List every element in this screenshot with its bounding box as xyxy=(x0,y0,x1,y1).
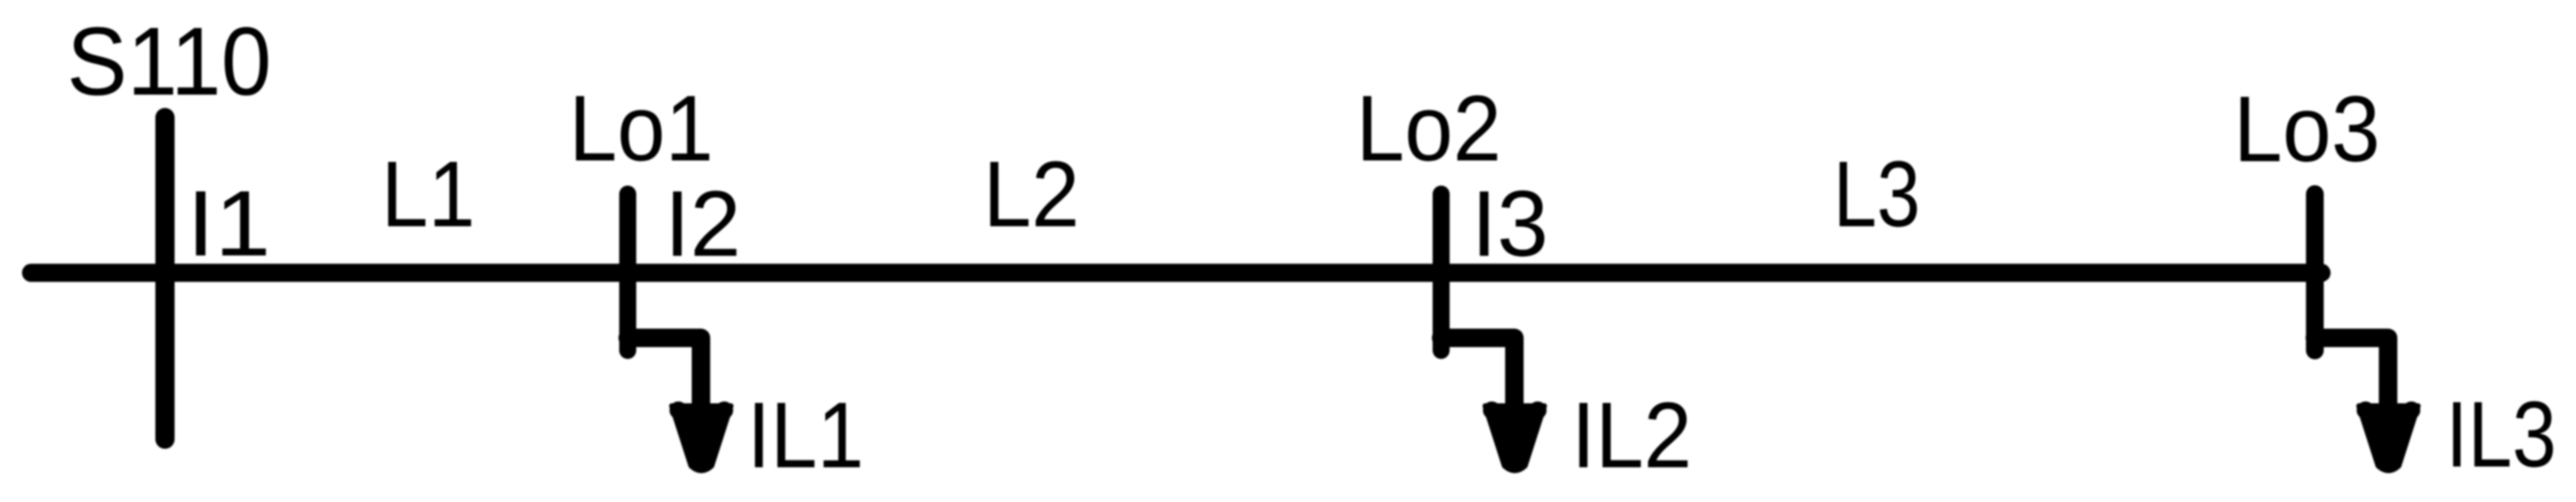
svg-text:Lo1: Lo1 xyxy=(569,76,713,180)
node Lo2 tick xyxy=(1433,194,1450,351)
svg-text:IL1: IL1 xyxy=(747,383,864,487)
load arrow IL1 xyxy=(670,401,733,471)
svg-text:L3: L3 xyxy=(1833,142,1921,246)
wire: main feeder bus line xyxy=(31,264,2322,282)
svg-text:I3: I3 xyxy=(1471,172,1548,276)
load arrow IL3 xyxy=(2357,401,2421,471)
svg-text:IL3: IL3 xyxy=(2446,382,2557,486)
svg-text:L1: L1 xyxy=(381,142,475,246)
node Lo3 tick xyxy=(2306,194,2324,351)
node Lo1 tick xyxy=(619,194,636,351)
load arrow IL2 xyxy=(1483,401,1547,471)
wire: load branch at Lo2 xyxy=(1441,338,1514,414)
svg-text:Lo3: Lo3 xyxy=(2233,77,2380,181)
svg-text:I2: I2 xyxy=(664,172,741,276)
svg-text:S110: S110 xyxy=(67,7,272,115)
bus S110 vertical bar xyxy=(155,118,175,439)
wire: load branch at Lo1 xyxy=(628,338,701,414)
svg-text:I1: I1 xyxy=(186,172,271,276)
svg-text:IL2: IL2 xyxy=(1571,383,1692,487)
wire: load branch at Lo3 xyxy=(2315,338,2388,414)
svg-text:Lo2: Lo2 xyxy=(1356,76,1502,180)
svg-text:L2: L2 xyxy=(983,142,1079,246)
